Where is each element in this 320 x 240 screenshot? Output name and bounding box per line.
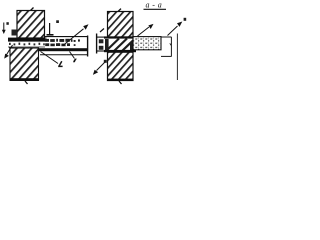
- title underline: [144, 8, 167, 10]
- mortar joint textured band: [8, 43, 46, 47]
- tick below lower block: [25, 81, 28, 84]
- tick above upper wall block: [31, 8, 34, 11]
- joint zone: end blobs: [105, 39, 109, 50]
- anchor bolt on slab: [47, 20, 59, 35]
- lower wall block (section): [107, 52, 134, 81]
- leader arrow to joint (lower-left): [4, 45, 13, 59]
- joint zone: dense diagonal strokes: [106, 39, 134, 52]
- small down-arrow with dot (label 1): [2, 22, 9, 34]
- slab bottom thick edge: [39, 48, 89, 51]
- leader arrow up-right (label 4): [63, 24, 89, 45]
- lower wall block: [10, 48, 40, 81]
- svg-text:a - a: a - a: [146, 0, 163, 9]
- upper wall block: [17, 11, 45, 39]
- leader arrow up-right from slab (label 6): [138, 24, 154, 36]
- upper wall block (section): [108, 12, 134, 38]
- ceiling line under slab: [40, 54, 88, 56]
- bracket on left face of upper block: [12, 30, 18, 36]
- tick above right wall: [118, 9, 121, 12]
- tick below right wall: [119, 81, 122, 84]
- leader arrow down-left (label 7): [93, 62, 106, 75]
- joint zone: bottom thick line: [104, 50, 136, 52]
- slab right end cap: [87, 36, 89, 57]
- joint zone: top thick line: [104, 36, 136, 38]
- dot on wall left edge: [104, 60, 107, 63]
- leader arrow up-right from slab end (label 5): [168, 18, 187, 36]
- slab in section (right of wall): [133, 37, 161, 50]
- leader with label (lower 1): [41, 52, 63, 67]
- slab interior texture: [45, 39, 80, 49]
- far wall face line beyond slab: [176, 34, 178, 81]
- mortar bed thick band: [8, 38, 47, 42]
- leader with label (lower 2): [70, 52, 77, 63]
- small tick on ledge edge: [169, 43, 171, 46]
- anchor stub left of wall: [96, 29, 108, 54]
- support ledge outline right of slab: [161, 37, 172, 57]
- floor slab (plan): top edge: [45, 36, 89, 38]
